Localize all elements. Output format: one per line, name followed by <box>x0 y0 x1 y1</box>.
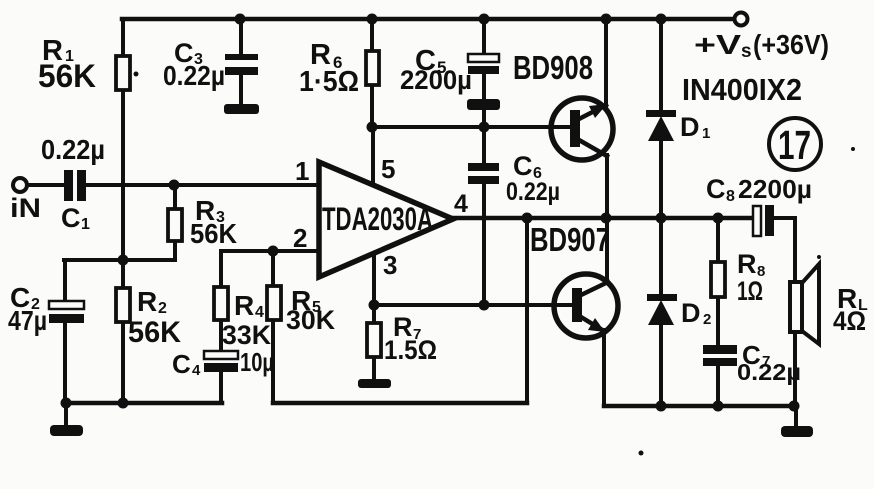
node R2 ground junction <box>118 398 129 409</box>
svg-text:4Ω: 4Ω <box>833 306 866 336</box>
wire speaker branch <box>793 218 797 406</box>
node output/diodes junction <box>656 213 667 224</box>
svg-text:2200µ: 2200µ <box>738 174 812 204</box>
wire R4 branch <box>219 251 223 403</box>
node C3 junction on rail <box>235 14 246 25</box>
svg-text:1·5Ω: 1·5Ω <box>299 66 359 98</box>
ground right <box>781 426 813 437</box>
label 1.5ohm R7 <box>384 335 437 365</box>
svg-text:56K: 56K <box>128 316 181 349</box>
wire ground rail left <box>65 401 222 406</box>
label 33K R4 <box>222 320 271 350</box>
capacitor C6 <box>468 163 499 184</box>
diode D1 <box>646 110 676 141</box>
svg-text:47µ: 47µ <box>8 305 47 336</box>
node C5 rail junction <box>479 14 490 25</box>
wire ground rail right <box>604 404 794 409</box>
label BD908 <box>513 49 593 86</box>
label 4ohm RL <box>833 306 866 336</box>
op-amp U1 TDA2030A <box>319 162 453 277</box>
label R2 <box>137 286 167 317</box>
svg-text:(+36V): (+36V) <box>753 29 829 60</box>
svg-text:56K: 56K <box>38 58 96 94</box>
wire top supply rail <box>122 17 734 22</box>
wire ground stub right <box>794 406 798 427</box>
label 47u C2 <box>8 305 47 336</box>
terminal IN <box>13 178 27 192</box>
speck <box>134 72 139 77</box>
label C1 <box>61 203 90 233</box>
node pin3/R7 junction <box>369 300 380 311</box>
capacitor C1 <box>64 170 86 201</box>
svg-text:D: D <box>681 298 701 328</box>
node C6/base junction <box>479 300 490 311</box>
wire BD907 collector <box>605 218 609 283</box>
svg-text:D: D <box>680 112 700 142</box>
node pin2/R5 junction <box>268 246 279 257</box>
ground C3 <box>224 104 259 114</box>
svg-text:0.22µ: 0.22µ <box>737 359 801 385</box>
svg-text:8: 8 <box>726 188 735 205</box>
wire pin3 <box>372 253 376 305</box>
svg-text:2: 2 <box>158 300 167 317</box>
label RL <box>837 283 868 314</box>
label D2 <box>681 298 711 328</box>
label R1 <box>42 35 74 67</box>
capacitor C5 <box>467 54 500 110</box>
label pin 3 <box>383 250 397 280</box>
wire C6 branch <box>482 127 486 305</box>
speck <box>817 255 821 259</box>
node D2 ground junction <box>656 401 667 412</box>
wire diode branch top <box>659 19 663 406</box>
label pin 2 <box>293 223 307 253</box>
wire R5 branch <box>271 251 275 403</box>
label iN <box>10 193 41 223</box>
label 0.22u C6 <box>506 178 560 206</box>
node C7 ground junction <box>713 401 724 412</box>
label 0.22u C7 <box>737 359 801 385</box>
resistor R3 <box>168 209 182 241</box>
wire bias node horizontal <box>64 258 175 262</box>
svg-text:4: 4 <box>454 190 468 218</box>
wire R1-R2 vertical branch <box>121 19 125 403</box>
svg-text:30K: 30K <box>286 305 335 335</box>
wire C5 branch <box>482 19 486 127</box>
svg-text:1.5Ω: 1.5Ω <box>384 335 437 365</box>
transistor Q2 BD907 <box>554 274 618 338</box>
label C8 2200u <box>706 174 812 205</box>
svg-text:2: 2 <box>703 311 711 328</box>
svg-text:iN: iN <box>10 193 41 223</box>
node output/R8 junction <box>713 213 724 224</box>
wire C2 branch <box>63 260 67 403</box>
wire input <box>27 183 64 187</box>
label pin 4 <box>454 190 468 218</box>
svg-text:3: 3 <box>383 250 397 280</box>
svg-text:C: C <box>706 174 726 204</box>
svg-text:0.22µ: 0.22µ <box>506 178 560 206</box>
wire C3 branch <box>239 19 243 105</box>
label C3 <box>174 38 203 68</box>
diode D2 <box>647 294 677 325</box>
label 0.22u C1 <box>41 134 105 165</box>
label R3 <box>195 195 225 226</box>
svg-text:1Ω: 1Ω <box>737 276 763 306</box>
resistor R1 <box>116 56 130 90</box>
svg-text:IN400IX2: IN400IX2 <box>682 72 802 107</box>
wire driver base top <box>372 125 574 129</box>
svg-text:4: 4 <box>192 362 201 379</box>
label R8 <box>737 249 765 280</box>
resistor R4 <box>214 287 228 320</box>
svg-text:5: 5 <box>381 154 395 184</box>
ground left <box>50 425 83 436</box>
label 1N4001X2 <box>682 72 802 107</box>
node BD908 emitter rail junction <box>601 14 612 25</box>
node C2 ground junction <box>61 398 72 409</box>
transistor Q1 BD908 <box>551 98 613 160</box>
label R7 <box>393 312 421 343</box>
label pin 1 <box>295 156 309 186</box>
badge circle 17 <box>769 118 821 170</box>
svg-text:1: 1 <box>295 156 309 186</box>
svg-text:10µ: 10µ <box>240 347 274 377</box>
svg-text:4: 4 <box>255 304 264 321</box>
svg-text:BD907: BD907 <box>530 221 610 258</box>
label 56K R2 <box>128 316 181 349</box>
wire R3 branch <box>173 185 177 260</box>
node R6 rail junction <box>367 14 378 25</box>
svg-text:56K: 56K <box>190 218 237 249</box>
speck <box>851 147 855 151</box>
capacitor C7 <box>703 345 737 366</box>
wire BD907 emitter <box>602 330 606 406</box>
node bias junction <box>118 255 129 266</box>
label C4 <box>172 349 201 379</box>
label 56K R1 <box>38 58 96 94</box>
label R6 <box>310 39 342 72</box>
node output/feedback junction <box>522 213 533 224</box>
svg-text:C: C <box>172 349 191 379</box>
label 1.5ohm R6 <box>299 66 359 98</box>
capacitor C4 <box>204 351 238 372</box>
wire feedback rail <box>273 218 527 403</box>
label 56K R3 <box>190 218 237 249</box>
wire BD908 collector <box>605 155 609 218</box>
label C7 <box>742 340 770 370</box>
wire R7 branch <box>372 305 376 381</box>
svg-text:+V: +V <box>694 29 741 60</box>
wire pin5 <box>371 127 375 184</box>
wire R6 branch <box>370 19 374 127</box>
wire pin2 <box>221 249 319 253</box>
svg-text:C: C <box>61 203 81 233</box>
node input/R3 junction <box>169 180 180 191</box>
label C6 <box>513 151 542 182</box>
terminal +Vs <box>735 13 748 26</box>
svg-text:0.22µ: 0.22µ <box>41 134 105 165</box>
label 1ohm R8 <box>737 276 763 306</box>
label 0.22u C3 <box>163 60 225 91</box>
svg-text:0.22µ: 0.22µ <box>163 60 225 91</box>
capacitor C2 <box>49 301 84 323</box>
svg-text:R: R <box>737 249 757 279</box>
node D1 rail junction <box>656 14 667 25</box>
svg-text:2200µ: 2200µ <box>400 65 472 95</box>
speck <box>639 451 644 456</box>
svg-text:33K: 33K <box>222 320 271 350</box>
label BD907 <box>530 221 610 258</box>
wire BD908 emitter <box>604 19 608 106</box>
svg-text:BD908: BD908 <box>513 49 593 86</box>
svg-text:2: 2 <box>293 223 307 253</box>
label +Vs(+36V) <box>694 29 829 62</box>
ground R7 <box>358 379 391 388</box>
node speaker ground junction <box>789 401 800 412</box>
wire ground stub left <box>64 403 68 426</box>
resistor R2 <box>116 288 130 322</box>
label R5 <box>291 285 321 316</box>
wire BD907 base <box>374 303 574 307</box>
svg-text:1: 1 <box>702 125 710 142</box>
label 30K R5 <box>286 305 335 335</box>
resistor R5 <box>267 286 281 320</box>
speaker RL <box>790 264 819 344</box>
node C5/base junction <box>479 122 490 133</box>
svg-text:TDA2030A: TDA2030A <box>322 201 433 237</box>
wire input to pin1 <box>86 183 319 187</box>
wire output <box>453 216 794 221</box>
label C5 <box>415 45 446 77</box>
capacitor C8 <box>753 205 774 236</box>
label 2200u C5 <box>400 65 472 95</box>
svg-text:R: R <box>137 286 157 317</box>
svg-text:17: 17 <box>778 122 811 168</box>
svg-text:s: s <box>741 41 752 62</box>
wire R8 branch <box>716 218 720 406</box>
resistor R8 <box>711 262 725 297</box>
label 10u C4 <box>240 347 274 377</box>
node output/BD908 junction <box>601 213 612 224</box>
node R6/pin5 junction <box>367 122 378 133</box>
label R4 <box>234 290 264 321</box>
capacitor C3 <box>225 54 258 75</box>
svg-text:C: C <box>513 151 533 181</box>
label C2 <box>10 282 40 313</box>
resistor R7 <box>367 323 381 357</box>
svg-text:R: R <box>234 290 254 321</box>
label pin 5 <box>381 154 395 184</box>
svg-text:1: 1 <box>81 216 90 233</box>
resistor R6 <box>366 51 379 85</box>
label D1 <box>680 112 710 142</box>
